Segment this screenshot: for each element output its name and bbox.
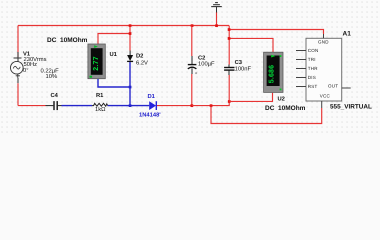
wire net1 D2 anode up (129, 26, 131, 51)
op-amp-timer A1 555_VIRTUAL (296, 34, 351, 108)
wire net1 V1 bottom vertical (17, 83, 19, 105)
AC source V1 (10, 52, 23, 83)
junction dot node (211,106) (210, 104, 213, 107)
wire net1 U2 bottom connection (229, 93, 272, 102)
svg-text:DIS: DIS (308, 75, 316, 80)
junction dot node (229,29.5) (228, 28, 231, 31)
svg-text:6.2V: 6.2V (136, 59, 148, 66)
svg-text:RST: RST (308, 84, 318, 89)
junction dot node (216.5,25.5) (215, 24, 218, 27)
junction dot node (229,38) (228, 37, 231, 40)
wire net2 U1 bottom connection (98, 79, 130, 87)
svg-text:OUT: OUT (328, 83, 338, 88)
junction dot node (229,101) (228, 100, 231, 103)
svg-text:CON: CON (308, 48, 319, 53)
wire net1 ground stem (216, 12, 218, 26)
wire net1 vertical drop at x229 (228, 26, 230, 65)
resistor R1 (92, 103, 108, 106)
svg-text:R1: R1 (96, 93, 104, 99)
svg-text:DC 10MOhm: DC 10MOhm (265, 105, 306, 112)
capacitor C4 (46, 101, 62, 110)
svg-text:100µF: 100µF (198, 61, 215, 68)
svg-text:TRI: TRI (308, 57, 316, 62)
capacitor C3 (224, 65, 234, 76)
wire net1 bottom to C4 (18, 105, 46, 107)
wire net1 bottom drop to VCC rail (211, 106, 322, 124)
svg-text:U1: U1 (110, 52, 118, 58)
svg-text:1kΩ: 1kΩ (95, 106, 106, 113)
zener diode D2 (127, 51, 133, 62)
svg-text:10%: 10% (46, 73, 58, 80)
wire net1 horizontal line A (18, 25, 229, 27)
junction dot node (130,87) blue (129, 86, 132, 89)
wire net1 U1 top connection (98, 34, 130, 45)
svg-text:555_VIRTUAL: 555_VIRTUAL (330, 103, 372, 110)
svg-text:+: + (195, 71, 198, 76)
wire net1 riser x192 to line A (191, 26, 193, 106)
svg-text:C4: C4 (51, 92, 59, 99)
junction dot node (130,33.5) (129, 32, 132, 35)
svg-text:0°: 0° (23, 67, 29, 74)
wire net1 bottom run x211 to x229 (211, 101, 229, 105)
wire net1 line C to voltmeter U2 top (229, 38, 273, 52)
svg-text:1N4148': 1N4148' (139, 112, 161, 119)
svg-text:C2: C2 (198, 54, 205, 61)
diode D1 (blue highlighted) (149, 101, 156, 110)
voltmeter U1 (88, 44, 105, 79)
svg-text:VCC: VCC (320, 94, 331, 99)
svg-text:D2: D2 (136, 53, 143, 60)
junction dot node (192,106) (191, 104, 194, 107)
svg-text:U2: U2 (278, 95, 285, 102)
svg-text:2.77: 2.77 (93, 56, 100, 70)
svg-text:5.686: 5.686 (268, 65, 275, 84)
svg-text:D1: D1 (148, 94, 156, 100)
wire net1 D1 cathode to riser (157, 105, 192, 107)
svg-text:100nF: 100nF (235, 65, 252, 72)
svg-text:A1: A1 (343, 30, 352, 37)
svg-text:THR: THR (308, 66, 318, 71)
svg-text:C3: C3 (235, 59, 243, 66)
junction dot node (192,25.5) (191, 24, 194, 27)
svg-text:50Hz: 50Hz (24, 61, 38, 68)
junction dot node (130,106) blue (129, 104, 132, 107)
svg-text:GND: GND (318, 40, 329, 45)
voltmeter U2 (264, 52, 283, 92)
wire net1 line B to 555 GND pin (229, 30, 323, 35)
wire net2 R1 to D1 with D2 tap (108, 105, 150, 107)
wire net1 top-left vertical from source V1 (17, 26, 19, 58)
junction dot node (130,26) (129, 24, 132, 27)
svg-text:DC 10MOhm: DC 10MOhm (47, 37, 88, 44)
polarized capacitor C2 (188, 56, 198, 76)
ground symbol (inverted) (211, 3, 222, 13)
wire net2 vertical to D2 cathode (129, 62, 131, 106)
wire net1 C3 bottom (228, 75, 230, 101)
wire net1 bottom run D1 to x211 (192, 105, 211, 107)
wire net2 (blue) C4 to R1 (62, 105, 93, 107)
